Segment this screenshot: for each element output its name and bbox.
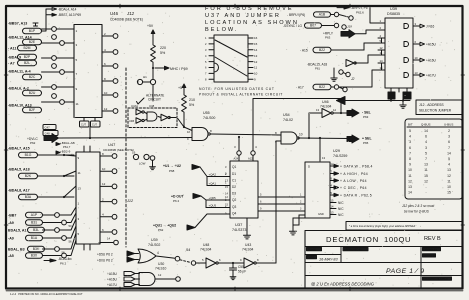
svg-text:MHC / P69: MHC / P69 [170, 67, 188, 71]
svg-text:+A15U: +A15U [426, 42, 437, 46]
svg-text:-BDAL7, A15: -BDAL7, A15 [8, 147, 30, 151]
inverter U48B [158, 114, 170, 121]
svg-text:FOR U-BUS REMOVE: FOR U-BUS REMOVE [205, 6, 294, 12]
svg-text:B1A: B1A [31, 236, 38, 240]
svg-text:15: 15 [447, 191, 451, 195]
note for U-BUS text [205, 6, 299, 33]
note J12 pins text [402, 204, 434, 214]
svg-text:B31: B31 [31, 221, 37, 225]
svg-text:U44A: U44A [131, 104, 138, 108]
svg-text:13: 13 [415, 71, 419, 75]
svg-text:14: 14 [254, 48, 258, 52]
svg-text:B1P: B1P [29, 29, 36, 33]
svg-text:CUT: CUT [92, 124, 97, 127]
svg-text:B1G: B1G [25, 153, 32, 157]
svg-text:4: 4 [157, 251, 159, 255]
node BBS7 input label [8, 22, 42, 34]
svg-text:+ SEL: + SEL [362, 137, 372, 141]
jumper pad [191, 261, 195, 265]
svg-text:13: 13 [322, 156, 326, 160]
svg-text:BIT: BIT [408, 123, 413, 127]
svg-text:+A16U: +A16U [426, 58, 437, 62]
svg-text:P61,7: P61,7 [63, 145, 71, 149]
svg-text:6: 6 [409, 146, 411, 150]
svg-text:9: 9 [409, 163, 411, 167]
svg-text:56: 56 [69, 240, 73, 244]
svg-text:* a bit is low at factory (log: * a bit is low at factory (logic high), … [349, 224, 415, 228]
svg-text:- A17: - A17 [296, 86, 304, 90]
svg-text:-BDAL4: -BDAL4 [58, 257, 69, 261]
svg-text:15: 15 [424, 174, 428, 178]
node BB7 input label [8, 212, 43, 217]
svg-text:-A9: -A9 [8, 221, 14, 225]
svg-text:12: 12 [447, 174, 451, 178]
svg-text:P62,6: P62,6 [356, 11, 364, 15]
svg-text:2: 2 [448, 129, 450, 133]
svg-text:-BDAL9: -BDAL9 [8, 56, 21, 60]
signal +D OUT input [171, 194, 230, 208]
svg-text:B2P: B2P [24, 55, 31, 59]
svg-text:4: 4 [448, 163, 450, 167]
svg-text:P62: P62 [30, 141, 36, 145]
svg-text:13: 13 [447, 168, 451, 172]
svg-text:BDAL, B3: BDAL, B3 [8, 248, 25, 252]
nand U55 74LS00 [187, 111, 215, 141]
node BDAL7 input label [8, 147, 74, 158]
svg-text:12: 12 [104, 107, 108, 111]
svg-text:10: 10 [299, 133, 303, 137]
power +5V [147, 24, 155, 38]
U29 output arrows [330, 162, 373, 217]
svg-text:D1: D1 [232, 172, 236, 176]
signal +DVLC arrow [27, 134, 59, 146]
node A11 input label [8, 45, 37, 50]
wires labels to IC1 [42, 29, 75, 102]
node -A17 label [296, 84, 347, 91]
node A9 input label [8, 235, 43, 240]
hex inverter U47 CD4069 [76, 142, 134, 250]
svg-text:- A7: - A7 [8, 62, 15, 66]
svg-text:B2F: B2F [29, 108, 35, 112]
svg-text:D3: D3 [232, 192, 236, 196]
svg-text:B2C: B2C [29, 75, 36, 79]
svg-text:+QU1 → +QU2: +QU1 → +QU2 [153, 224, 176, 228]
svg-text:C1: C1 [232, 178, 236, 182]
inverter U44B [129, 118, 144, 124]
svg-text:11: 11 [424, 168, 428, 172]
svg-text:B2M: B2M [24, 46, 31, 50]
svg-text:+Q05: +Q05 [209, 196, 217, 200]
svg-text:A1B: A1B [319, 13, 326, 17]
svg-text:PAGE 1 ∕ 9: PAGE 1 ∕ 9 [386, 268, 425, 275]
decoder U29 74LS259 [305, 149, 347, 218]
svg-text:U48: U48 [149, 104, 155, 108]
svg-text:B3L: B3L [33, 228, 39, 232]
nand U30 74LS10 [139, 262, 180, 286]
ground under U37 [243, 218, 250, 239]
svg-text:LOW: LOW [139, 162, 146, 166]
svg-text:B2E: B2E [29, 40, 36, 44]
svg-text:+D5U P6 2: +D5U P6 2 [97, 253, 113, 257]
wire top-left bus to arrows [42, 7, 82, 31]
svg-text:Q2: Q2 [232, 198, 236, 202]
svg-text:4: 4 [409, 135, 411, 139]
svg-text:74LS259: 74LS259 [333, 154, 347, 158]
svg-text:be low for Q-BUS: be low for Q-BUS [404, 210, 430, 214]
svg-text:-SSYNC / LG: -SSYNC / LG [283, 24, 302, 28]
U30 input arrows A15U A16U A17U [107, 272, 140, 287]
svg-text:APPROVED BY:: APPROVED BY: [344, 248, 363, 252]
svg-text:56 pF: 56 pF [238, 270, 246, 274]
capacitor C55 56pF [230, 262, 247, 280]
svg-text:1-2-4 PRINTED ON NO. 1000H-1: 1-2-4 PRINTED ON NO. 1000H-10 CLEARPRINT… [10, 292, 83, 296]
svg-text:U39: U39 [151, 238, 158, 242]
node BDAL11 input label [8, 70, 42, 80]
inverter U43 74LS04 [240, 243, 276, 268]
node A9 input label [8, 220, 43, 225]
svg-text:B3X: B3X [31, 254, 38, 258]
svg-text:220: 220 [160, 46, 166, 50]
svg-text:4: 4 [425, 140, 427, 144]
note strip box [346, 222, 463, 231]
node -BDAL15 with inverter [307, 60, 360, 82]
svg-text:P61: P61 [315, 67, 320, 71]
svg-text:74LS02: 74LS02 [148, 243, 160, 247]
svg-text:A12: A12 [248, 157, 253, 161]
svg-text:10: 10 [104, 91, 108, 95]
svg-text:10: 10 [408, 168, 412, 172]
svg-text:10: 10 [415, 56, 419, 60]
svg-text:P65: P65 [363, 141, 369, 145]
svg-text:SCALE: SCALE [308, 248, 317, 252]
gate U54 74L02 [275, 113, 303, 144]
svg-text:12: 12 [333, 108, 337, 112]
svg-text:7: 7 [409, 151, 411, 155]
svg-text:+A15U: +A15U [107, 272, 118, 276]
svg-text:12: 12 [380, 46, 384, 50]
svg-text:GND: GND [318, 212, 324, 216]
bus driver U39 DS8835 [385, 7, 413, 88]
node A5 input label [8, 253, 43, 258]
signal +RPLY arrow [323, 30, 355, 40]
ground near BDAL15 [331, 68, 337, 81]
svg-text:A1P: A1P [31, 213, 38, 217]
svg-text:REV B: REV B [424, 236, 441, 242]
latch U37 74LS373 [225, 161, 258, 232]
svg-text:N/C: N/C [338, 213, 344, 217]
svg-text:16: 16 [254, 36, 258, 40]
svg-text:-BBS7, A13 P69: -BBS7, A13 P69 [58, 13, 81, 17]
svg-text:+D0U P6 2: +D0U P6 2 [97, 259, 113, 263]
svg-text:10: 10 [254, 72, 258, 76]
note unused gates text [199, 87, 283, 97]
title block handwriting [311, 258, 425, 287]
svg-text:-A9: -A9 [8, 237, 14, 241]
svg-text:NOTE: FOR UNLISTED DATES C: NOTE: FOR UNLISTED DATES CUT [199, 87, 275, 91]
svg-text:P68: P68 [169, 169, 175, 173]
svg-text:B22: B22 [319, 48, 325, 52]
svg-text:50: 50 [69, 224, 73, 228]
IC2 bottom pad [98, 237, 118, 246]
svg-text:+D OUT: +D OUT [171, 195, 184, 199]
svg-text:13: 13 [316, 108, 320, 112]
svg-text:Q4: Q4 [232, 211, 236, 215]
wire U39 out to pad [156, 248, 190, 261]
svg-text:BELOW.: BELOW. [205, 27, 238, 33]
svg-text:D2: D2 [232, 185, 236, 189]
svg-text:+A16U: +A16U [107, 277, 118, 281]
svg-text:11: 11 [447, 179, 451, 183]
svg-text:+ A HIGH , P64: + A HIGH , P64 [340, 172, 368, 176]
svg-text:CD4069B (SEE NOTE): CD4069B (SEE NOTE) [103, 148, 134, 152]
output arrow -SEL P63 [347, 109, 371, 119]
jumper pads 16 LOW [132, 151, 155, 166]
svg-text:14: 14 [447, 151, 451, 155]
svg-text:CIRCUIT: CIRCUIT [148, 98, 161, 102]
svg-text:J19: J19 [347, 25, 352, 29]
svg-text:+U1 → +U2: +U1 → +U2 [163, 164, 181, 168]
U29 ground [289, 215, 310, 235]
node BDAL12 input label [8, 36, 42, 45]
svg-text:7: 7 [425, 157, 427, 161]
svg-text:PINOUT & INSTALL ALTERNATE C: PINOUT & INSTALL ALTERNATE CIRCUIT [199, 93, 283, 97]
svg-text:12: 12 [102, 182, 106, 186]
capacitor C47 block [43, 125, 58, 136]
table header J12 ADDRESS SELECTION JUMPER [416, 100, 463, 115]
svg-text:+BD2-9: +BD2-9 [60, 150, 71, 154]
svg-text:12: 12 [408, 179, 412, 183]
svg-text:C55: C55 [238, 265, 244, 269]
svg-text:-BB7: -BB7 [8, 214, 16, 218]
node BDAL8 input label [8, 189, 74, 200]
svg-text:14: 14 [107, 237, 111, 241]
svg-text:-BDAL11, A-4: -BDAL11, A-4 [8, 70, 31, 74]
svg-text:- BRPLY(P6): - BRPLY(P6) [287, 13, 305, 17]
svg-text:U-BUS: U-BUS [444, 123, 453, 127]
svg-text:U4B: U4B [129, 119, 134, 123]
svg-text:100QU: 100QU [384, 235, 411, 244]
svg-text:74LS04: 74LS04 [242, 248, 254, 252]
node BDAL5 input label [8, 168, 74, 179]
svg-text:3: 3 [448, 135, 450, 139]
svg-text:+ C DEC , P64: + C DEC , P64 [340, 186, 367, 190]
svg-text:74L02: 74L02 [283, 118, 293, 122]
svg-text:@ 2 U Ex ADDRESS DECODING: @ 2 U Ex ADDRESS DECODING [311, 282, 375, 287]
node -BRPLY output arrow [337, 6, 368, 15]
alternate circuit dashed box [128, 108, 177, 128]
dashed jumper link [180, 260, 191, 263]
svg-text:8: 8 [409, 157, 411, 161]
svg-text:-BBS7, A13: -BBS7, A13 [8, 22, 27, 26]
gate U48A [145, 104, 158, 121]
svg-text:J12 pins 2 & 3 so must: J12 pins 2 & 3 so must [402, 204, 434, 208]
svg-text:N/C: N/C [338, 207, 344, 211]
svg-text:-: - [425, 191, 426, 195]
svg-text:B07: B07 [310, 24, 316, 28]
svg-text:12: 12 [424, 179, 428, 183]
svg-text:13: 13 [424, 163, 428, 167]
wire bus into U55 [58, 118, 192, 139]
inverter U44A [131, 104, 144, 115]
svg-text:U39: U39 [390, 7, 397, 11]
svg-text:11: 11 [76, 102, 79, 106]
svg-text:11: 11 [408, 174, 412, 178]
power +5 [178, 84, 186, 92]
svg-text:6: 6 [448, 140, 450, 144]
svg-text:+5: +5 [178, 86, 182, 90]
pull-up tie symbol [33, 23, 38, 26]
U39 outputs [413, 22, 437, 78]
svg-text:11: 11 [380, 51, 383, 55]
svg-text:U55: U55 [203, 111, 210, 115]
node -BRPLY(P6) label [287, 12, 353, 20]
jumper socket diagram [205, 35, 258, 82]
node A7 input label [8, 60, 37, 65]
svg-text:J12: J12 [126, 11, 135, 16]
svg-text:DRAWING NUMBER: DRAWING NUMBER [424, 277, 449, 281]
inverter U48 74LS04 [196, 243, 244, 268]
title block [305, 231, 463, 289]
svg-text:6: 6 [425, 135, 427, 139]
svg-text:-BRPLY, P5: -BRPLY, P5 [351, 6, 368, 10]
svg-text:CD4069B (SEE NOTE): CD4069B (SEE NOTE) [110, 18, 143, 22]
wires bottom pads to IC2 [43, 207, 77, 256]
resistor R2 210 5% [182, 92, 195, 128]
wire R20 to MHC/P69 [152, 65, 188, 79]
svg-text:DRAWN BY: DRAWN BY [424, 248, 438, 252]
nor gate U39 74LS02 [138, 238, 160, 263]
svg-text:+ DATA W , P68,4: + DATA W , P68,4 [340, 164, 373, 168]
svg-text:Q-BUS: Q-BUS [421, 123, 431, 127]
svg-text:210: 210 [189, 98, 195, 102]
svg-text:- A11: - A11 [8, 47, 16, 51]
svg-text:J2: J2 [351, 77, 355, 81]
inverter U46F 74LS04 [309, 100, 349, 118]
node BDAL6 input label [8, 87, 42, 96]
svg-text:+QA2: +QA2 [209, 173, 217, 177]
svg-text:SELECTION JUMPER: SELECTION JUMPER [419, 109, 452, 113]
svg-text:- SEL: - SEL [362, 111, 371, 115]
svg-text:B2K: B2K [25, 174, 32, 178]
hex inverter U45 CD4069 [74, 11, 143, 118]
svg-text:U29: U29 [333, 149, 340, 153]
node -SSYNC label [283, 23, 352, 29]
wire U43 output to U54 pin 9 [275, 141, 277, 263]
svg-text:7: 7 [448, 146, 450, 150]
svg-text:U37 AND JUMPER: U37 AND JUMPER [205, 13, 281, 19]
svg-text:B2U: B2U [29, 91, 36, 95]
svg-text:Q3: Q3 [232, 205, 236, 209]
svg-text:5: 5 [409, 129, 411, 133]
svg-text:74LS373: 74LS373 [232, 228, 246, 232]
svg-text:12: 12 [158, 273, 162, 277]
bottom jumper pads [55, 213, 72, 261]
svg-text:-BDAL4, A14: -BDAL4, A14 [58, 7, 77, 11]
node BDAL10 input label [8, 104, 42, 113]
node BDAL5, A1 input label [8, 227, 45, 232]
svg-text:-: - [425, 185, 426, 189]
svg-text:+ A LOW , P64: + A LOW , P64 [340, 179, 367, 183]
labels +BDAL-AB [56, 141, 75, 154]
output arrow -SEL2 P65 [347, 135, 372, 145]
svg-text:REVISED: REVISED [424, 254, 436, 258]
output arrow -BDAL4 [44, 257, 69, 266]
svg-text:DECMATION: DECMATION [326, 235, 379, 244]
svg-text:-BDAL8, A17: -BDAL8, A17 [8, 189, 30, 193]
svg-text:+QU5: +QU5 [209, 204, 217, 208]
signal +QU1 +QU2 input [153, 214, 230, 232]
svg-text:B22: B22 [319, 85, 325, 89]
svg-text:U46: U46 [110, 11, 119, 16]
svg-text:P6 2: P6 2 [60, 262, 67, 266]
IC1 right pins to pads [102, 32, 118, 114]
svg-text:T: T [138, 81, 140, 85]
J12 jumper boundary dashed [125, 68, 127, 247]
svg-text:DS8835: DS8835 [387, 12, 400, 16]
svg-text:U54: U54 [283, 113, 290, 117]
svg-text:+A17U: +A17U [107, 283, 118, 287]
node -A15 label [300, 43, 381, 53]
svg-text:74LS10: 74LS10 [155, 267, 167, 271]
svg-text:Q1: Q1 [232, 165, 236, 169]
svg-text:14: 14 [380, 59, 384, 63]
svg-text:5%: 5% [160, 51, 166, 55]
svg-text:B3H: B3H [33, 247, 40, 251]
svg-text:P63: P63 [363, 115, 369, 119]
IC2 left wires [64, 155, 76, 197]
U39 left pins [339, 8, 385, 87]
svg-text:U37: U37 [235, 222, 243, 227]
svg-text:11: 11 [78, 171, 81, 175]
svg-text:74LS04: 74LS04 [320, 105, 332, 109]
wire U54 output junctions [299, 113, 350, 161]
svg-text:13: 13 [408, 185, 412, 189]
svg-text:5: 5 [425, 151, 427, 155]
svg-text:B2L: B2L [24, 61, 30, 65]
svg-text:3: 3 [425, 146, 427, 150]
pad LOW to ground [150, 161, 156, 170]
jumper pad column J11 [52, 27, 65, 105]
title text DECMATION 100QU [326, 235, 441, 244]
svg-text:16-MAY-83: 16-MAY-83 [319, 258, 339, 262]
svg-text:U48: U48 [203, 243, 209, 247]
title block field labels [307, 248, 452, 282]
wire U55 output to U54 [211, 134, 282, 135]
address selection table body [405, 119, 463, 199]
svg-text:+ DATA R , P62,5: + DATA R , P62,5 [340, 193, 372, 197]
svg-text:+5V: +5V [147, 24, 154, 28]
wires U37 outputs to U29 [258, 193, 305, 212]
svg-text:11: 11 [254, 66, 257, 70]
svg-text:15: 15 [254, 42, 258, 46]
node BDAL9 input label [8, 54, 37, 59]
svg-text:DATE: DATE [308, 256, 315, 260]
svg-text:14: 14 [408, 191, 412, 195]
svg-text:H1: H1 [143, 75, 147, 79]
svg-text:J N16: J N16 [426, 24, 435, 28]
U39 input labels [97, 251, 139, 263]
svg-text:B3A: B3A [25, 195, 32, 199]
svg-text:U43: U43 [245, 243, 251, 247]
svg-text:U46: U46 [322, 100, 329, 104]
svg-text:P63: P63 [325, 36, 331, 40]
jumper H1 [137, 75, 155, 101]
svg-text:C47: C47 [45, 126, 51, 130]
svg-text:74LS00: 74LS00 [203, 116, 215, 120]
svg-text:P6 2: P6 2 [173, 199, 180, 203]
svg-text:J12: J12 [126, 199, 134, 203]
svg-text:- A15: - A15 [300, 49, 308, 53]
